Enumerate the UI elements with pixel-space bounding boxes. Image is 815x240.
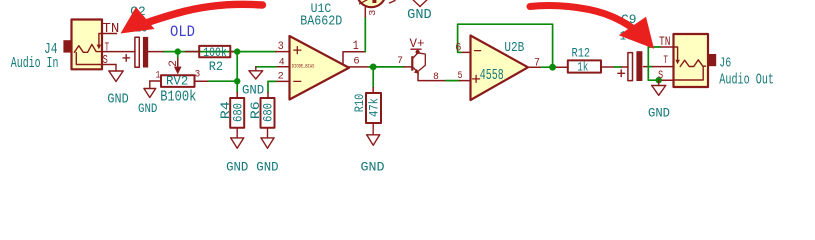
wire U1C output pin 6 to node D and Q base pin 7 bbox=[349, 66, 411, 68]
svg-text:GND: GND bbox=[407, 8, 432, 23]
svg-text:B100k: B100k bbox=[160, 89, 196, 105]
svg-text:680: 680 bbox=[231, 103, 245, 122]
svg-text:R2: R2 bbox=[209, 59, 223, 74]
svg-text:4558: 4558 bbox=[480, 68, 504, 84]
junction node C bbox=[234, 78, 240, 84]
svg-text:U2B: U2B bbox=[504, 41, 524, 56]
wire U2B output pin 7 to R12 bbox=[528, 66, 568, 68]
svg-text:GND: GND bbox=[648, 106, 670, 121]
ground at top center bbox=[407, 0, 432, 23]
svg-text:V+: V+ bbox=[410, 37, 425, 51]
svg-text:100k: 100k bbox=[203, 45, 227, 60]
svg-text:GND: GND bbox=[107, 93, 128, 108]
text annotation OLD bbox=[170, 23, 195, 41]
junction node D bbox=[370, 64, 377, 71]
svg-text:GND: GND bbox=[361, 160, 385, 175]
ground at J4 sleeve bbox=[107, 65, 128, 108]
wire J6 TN pin to S pin and GND bbox=[648, 47, 673, 80]
wire node B down to junction C and R4 bbox=[236, 52, 238, 98]
op-amp U1C BA662D bbox=[278, 2, 360, 100]
transistor Q1 in circle (top, cut off) bbox=[357, 0, 386, 16]
junction node E bbox=[549, 64, 556, 71]
svg-text:TN: TN bbox=[659, 34, 671, 49]
svg-text:R6: R6 bbox=[248, 101, 263, 119]
resistor R6 680 bbox=[248, 98, 276, 128]
svg-text:S: S bbox=[103, 53, 108, 67]
svg-text:7: 7 bbox=[397, 55, 403, 67]
svg-text:OLD: OLD bbox=[170, 23, 195, 41]
wire jack J4 tip pin to C2 bbox=[102, 51, 135, 53]
wire C9 to J6 tip pin bbox=[644, 66, 674, 68]
wire R12 to C9 bbox=[601, 66, 628, 68]
svg-text:GND: GND bbox=[242, 83, 264, 98]
ground at RV2 pin 1 bbox=[138, 81, 157, 116]
svg-text:6: 6 bbox=[455, 43, 461, 55]
svg-text:GND: GND bbox=[138, 102, 157, 116]
svg-text:3: 3 bbox=[278, 41, 284, 53]
red annotation arrow left bbox=[121, 4, 263, 33]
junction node B bbox=[234, 48, 240, 54]
svg-text:47k: 47k bbox=[368, 98, 382, 117]
resistor R4 680 bbox=[218, 98, 246, 128]
ground below R6 bbox=[256, 128, 278, 175]
wire U2B pin 6 feedback loop to output node E bbox=[458, 24, 553, 67]
ground at U1C pin 4 bbox=[242, 67, 264, 98]
junction node F at J6 sleeve bbox=[656, 77, 662, 83]
svg-text:RV2: RV2 bbox=[166, 74, 188, 89]
wire Q emitter pin 8 to U2B pin 5 bbox=[418, 73, 471, 81]
junction node A bbox=[175, 48, 181, 54]
resistor R12 1k bbox=[568, 46, 601, 75]
resistor R10 47k bbox=[352, 93, 382, 123]
svg-text:1: 1 bbox=[156, 69, 161, 81]
svg-text:BA662D: BA662D bbox=[300, 15, 342, 30]
wire RV2 pin 3 to junction C bbox=[195, 80, 238, 82]
svg-text:3: 3 bbox=[195, 69, 201, 81]
ground below R10 bbox=[361, 123, 385, 175]
svg-text:Audio In: Audio In bbox=[11, 55, 59, 72]
connector J6 Audio Out jack bbox=[658, 34, 774, 89]
svg-text:DIODE_BIAS: DIODE_BIAS bbox=[292, 64, 315, 70]
svg-text:GND: GND bbox=[226, 160, 248, 175]
wire R2 left pin stub bbox=[186, 51, 200, 53]
svg-text:1k: 1k bbox=[577, 60, 588, 75]
wire C2 right stub bbox=[148, 51, 163, 53]
svg-text:6: 6 bbox=[353, 56, 359, 68]
svg-text:2: 2 bbox=[278, 71, 284, 83]
connector J4 Audio In jack bbox=[11, 20, 120, 73]
svg-text:T: T bbox=[663, 55, 668, 67]
svg-text:1: 1 bbox=[353, 39, 359, 53]
svg-text:R12: R12 bbox=[572, 46, 591, 61]
ground below R4 bbox=[226, 128, 248, 175]
svg-text:GND: GND bbox=[256, 160, 278, 175]
svg-text:3: 3 bbox=[367, 9, 378, 16]
wire R2 right pin stub bbox=[230, 51, 235, 53]
svg-text:8: 8 bbox=[433, 71, 439, 83]
wire node D down to R10 bbox=[372, 67, 374, 93]
svg-text:2: 2 bbox=[168, 60, 180, 67]
svg-text:R10: R10 bbox=[352, 94, 367, 113]
svg-text:4: 4 bbox=[279, 56, 285, 68]
resistor R2 100k bbox=[199, 45, 230, 74]
transistor Q emitter follower pins 7/8 bbox=[397, 53, 439, 83]
wire T-net from C2 to R2 and U1C pin 3 bbox=[163, 51, 276, 53]
power symbol V+ bbox=[410, 37, 425, 54]
op-amp U2B 4558 bbox=[455, 36, 540, 101]
potentiometer RV2 B100k bbox=[150, 60, 200, 105]
red annotation arrow right bbox=[530, 6, 654, 49]
wire stub top right of circle bbox=[390, 1, 396, 4]
svg-text:J6: J6 bbox=[719, 57, 731, 72]
wire U1C pin 2 to R6 bbox=[268, 81, 290, 98]
wire U1C pin 1 up to Q1 circle transistor bbox=[343, 8, 365, 65]
svg-text:Audio Out: Audio Out bbox=[719, 71, 774, 88]
capacitor C2 bbox=[123, 5, 148, 68]
ground at J6 sleeve bbox=[648, 80, 670, 120]
wire from node A down to RV2 wiper bbox=[177, 52, 179, 67]
wire U1C pin 4 to GND bbox=[256, 66, 290, 68]
wire U1C pin3 stub bbox=[276, 51, 290, 53]
capacitor C9 bbox=[618, 13, 643, 81]
svg-text:7: 7 bbox=[534, 58, 540, 70]
svg-text:TN: TN bbox=[102, 21, 119, 37]
svg-text:5: 5 bbox=[458, 70, 463, 82]
svg-text:680: 680 bbox=[262, 103, 276, 122]
